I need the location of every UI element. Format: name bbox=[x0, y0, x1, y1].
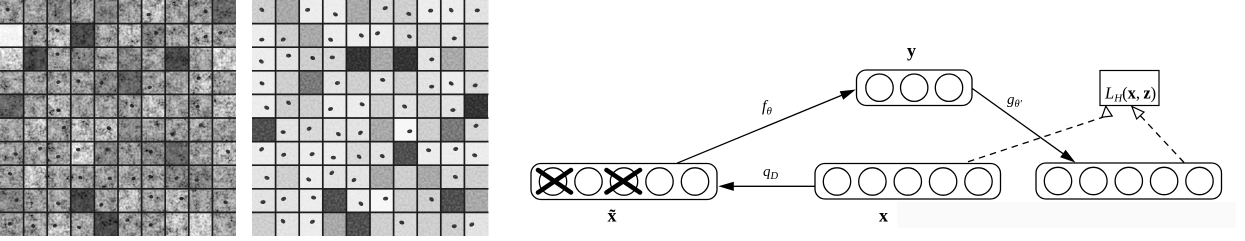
arrow q_D (x to x-tilde) bbox=[718, 182, 815, 191]
svg-text:fθ: fθ bbox=[762, 98, 772, 118]
faint gray band artifact bbox=[897, 202, 1236, 228]
loss box L_H(x,z) bbox=[1100, 71, 1159, 106]
filter grid 1 (left weight-image mosaic) bbox=[0, 0, 236, 236]
dashed arrow z to loss bbox=[1132, 106, 1184, 162]
corruption cross 1 bbox=[538, 170, 571, 193]
node y (hidden layer) bbox=[857, 70, 973, 106]
svg-text:x: x bbox=[879, 206, 888, 226]
svg-text:y: y bbox=[907, 41, 916, 61]
svg-text:gθ′: gθ′ bbox=[1007, 92, 1023, 110]
grid 1 separator lines bbox=[0, 0, 236, 236]
grid 2 separator lines bbox=[252, 0, 489, 236]
dashed arrow x to loss bbox=[968, 106, 1112, 162]
corruption cross 2 bbox=[607, 170, 641, 193]
svg-text:LH(x, z): LH(x, z) bbox=[1104, 84, 1156, 105]
node z (reconstruction layer) bbox=[1036, 163, 1222, 199]
node x (input layer) bbox=[815, 164, 1001, 200]
svg-text:x̃: x̃ bbox=[608, 206, 617, 226]
arrow f_theta (x-tilde to y) bbox=[677, 90, 856, 164]
svg-text:qD: qD bbox=[763, 164, 779, 182]
filter grid 2 (right weight-image mosaic) bbox=[252, 0, 489, 236]
arrow g_theta-prime (y to z) bbox=[972, 89, 1075, 163]
node x-tilde (corrupted input layer) bbox=[531, 164, 717, 200]
